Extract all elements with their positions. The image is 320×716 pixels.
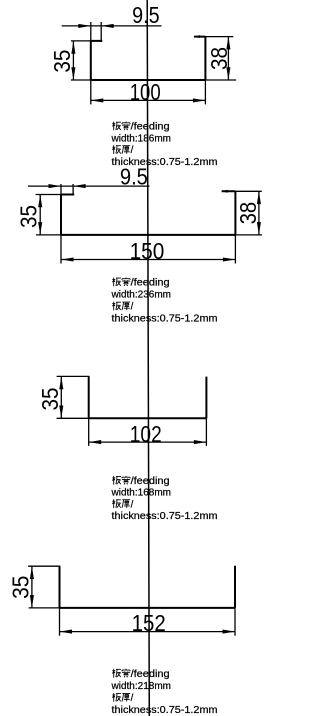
profile 3 dim 102 left arrow — [89, 440, 102, 444]
svg-text:width:168mm: width:168mm — [110, 488, 171, 499]
svg-text:35: 35 — [8, 576, 34, 599]
svg-text:9.5: 9.5 — [120, 164, 148, 190]
profile 4 dim 35 line — [31, 567, 33, 608]
profile 4 top extension (35 top) — [28, 565, 60, 567]
profile 2 dim 38 up arrow — [257, 192, 261, 205]
profile 2 dim 9.5 right arrow — [73, 184, 86, 188]
text block 2 line 3: ban-hou/ — [112, 302, 121, 311]
profile 1 dim 100 right extension — [204, 80, 206, 104]
text block 3 line 1: ban-kuan/feeding — [112, 476, 121, 485]
text block 1 line 3: ban-hou/ — [112, 145, 121, 154]
profile 1 dim 35 up arrow — [71, 41, 75, 54]
profile 2 bottom extension left — [36, 234, 61, 236]
svg-text:/feeding: /feeding — [131, 476, 170, 487]
profile 2 dim 150 right extension — [234, 235, 236, 264]
profile 2 left flange extension (35 top) — [36, 194, 61, 196]
profile 3 outline (U-channel 102 wide) — [89, 376, 207, 418]
svg-text:/feeding: /feeding — [131, 122, 170, 133]
svg-text:150: 150 — [130, 238, 165, 264]
svg-text:/: / — [131, 499, 134, 510]
svg-text:/: / — [131, 693, 134, 704]
profile 2 right flange extension (38 top) — [235, 190, 261, 192]
svg-text:/feeding: /feeding — [131, 278, 170, 289]
profile 4 outline (U-channel 152 wide) — [60, 566, 236, 608]
svg-text:152: 152 — [132, 610, 166, 636]
svg-text:/: / — [131, 145, 134, 156]
profile 1 dim 100 line — [91, 99, 206, 101]
profile 3 dim 35 line — [60, 377, 62, 418]
svg-text:35: 35 — [37, 388, 63, 411]
profile 1 dim 100 left arrow — [91, 98, 104, 102]
profile 4 bottom extension left — [29, 607, 60, 609]
profile 2 wall / 9.5 left extension line — [60, 184, 62, 195]
profile 4 dim 152 line — [60, 631, 236, 633]
profile 3 dim 35 up arrow — [59, 377, 63, 390]
profile 2 dim 9.5 left arrow — [49, 184, 62, 188]
text block 4 line 3: ban-hou/ — [112, 693, 121, 702]
profile 4 dim 152 left extension — [59, 608, 61, 636]
svg-text:width:186mm: width:186mm — [110, 133, 171, 144]
text block 4 line 1: ban-kuan/feeding — [112, 669, 121, 678]
svg-text:35: 35 — [16, 205, 42, 228]
profile 2 lip / 9.5 right extension line — [72, 184, 74, 196]
svg-text:102: 102 — [130, 421, 162, 447]
svg-text:width:218mm: width:218mm — [110, 681, 171, 692]
profile 1 dim 38 up arrow — [226, 37, 230, 50]
profile 1 right flange extension (38 top) — [205, 36, 233, 38]
profile 1 dim 9.5 left arrow — [78, 24, 91, 28]
profile 3 dim 102 right arrow — [194, 440, 207, 444]
profile 1 wall / 9.5 left extension line — [90, 22, 92, 41]
profile 2 dim 150 line — [61, 259, 235, 261]
text block 2 line 1: ban-kuan/feeding — [112, 278, 121, 287]
svg-text:/: / — [131, 302, 134, 313]
profile 2 dim 150 left extension — [60, 235, 62, 264]
profile 4 dim 152 right extension — [234, 608, 236, 636]
profile 2 outline (C-channel 150 wide) — [61, 191, 235, 235]
profile 3 top extension (35 top) — [57, 375, 90, 377]
profile 2 dim 150 left arrow — [61, 257, 74, 261]
svg-text:9.5: 9.5 — [132, 2, 160, 28]
profile 3 dim 102 line — [89, 441, 207, 443]
profile 4 dim 35 down arrow — [30, 595, 34, 608]
profile 1 dim 100 left extension — [90, 80, 92, 104]
svg-text:width:236mm: width:236mm — [110, 290, 171, 301]
svg-text:thickness:0.75-1.2mm: thickness:0.75-1.2mm — [112, 511, 218, 522]
profile 1 right flange tapered end — [194, 35, 200, 38]
profile 4 dim 152 left arrow — [60, 630, 73, 634]
profile 2 dim 150 right arrow — [223, 257, 236, 261]
profile 1 dim 9.5 line — [62, 25, 162, 27]
profile 2 dim 35 line — [39, 195, 41, 235]
svg-text:38: 38 — [206, 47, 232, 70]
profile 1 bottom extension left — [71, 79, 91, 81]
svg-text:38: 38 — [235, 202, 261, 224]
profile 4 dim 35 up arrow — [30, 567, 34, 580]
svg-text:/feeding: /feeding — [131, 669, 170, 680]
profile 3 dim 102 right extension — [205, 418, 207, 446]
profile 2 dim 38 line — [258, 192, 260, 235]
profile 2 dim 35 down arrow — [38, 222, 42, 235]
profile 3 dim 35 down arrow — [59, 406, 63, 419]
profile 1 dim 38 down arrow — [226, 67, 230, 80]
profile 4 dim 152 right arrow — [223, 630, 236, 634]
svg-text:thickness:0.75-1.2mm: thickness:0.75-1.2mm — [112, 705, 218, 716]
profile 3 dim 102 left extension — [88, 418, 90, 446]
profile 1 outline (C-channel 100 wide) — [91, 37, 206, 80]
svg-text:35: 35 — [49, 50, 75, 73]
profile 2 dim 35 up arrow — [38, 195, 42, 208]
profile 1 dim 35 line — [72, 41, 74, 79]
text block 1 line 1: ban-kuan/feeding — [112, 122, 121, 131]
profile 1 lip / 9.5 right extension line — [100, 22, 102, 42]
profile 1 dim 38 line — [227, 37, 229, 80]
profile 1 left flange extension (35 top) — [71, 40, 91, 42]
svg-text:100: 100 — [130, 79, 161, 105]
profile 1 dim 9.5 right arrow — [101, 24, 114, 28]
profile 1 dim 35 down arrow — [71, 67, 75, 80]
profile 2 dim 9.5 line — [28, 185, 150, 187]
svg-text:thickness:0.75-1.2mm: thickness:0.75-1.2mm — [112, 314, 218, 325]
profile 2 dim 38 down arrow — [257, 222, 261, 235]
vertical centerline — [147, 0, 149, 716]
profile 1 dim 100 right arrow — [193, 98, 206, 102]
profile 1 bottom extension right — [205, 79, 236, 81]
profile 3 bottom extension left — [57, 417, 89, 419]
profile 2 bottom extension right — [235, 234, 262, 236]
profile 2 right flange tapered end — [222, 190, 228, 193]
text block 3 line 3: ban-hou/ — [112, 499, 121, 508]
